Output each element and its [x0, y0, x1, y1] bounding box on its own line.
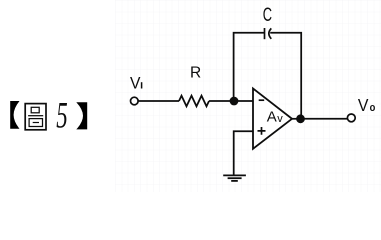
wire Vi to R — [138, 100, 179, 102]
svg-text:A: A — [267, 108, 277, 125]
node A junction dot — [230, 97, 239, 106]
wire node B to terminal Vo — [301, 118, 348, 120]
figure label bracket right — [76, 102, 87, 129]
svg-text:o: o — [370, 102, 376, 114]
node B junction dot — [296, 114, 305, 123]
figure label character 圖 (bottom 回 inner) — [33, 122, 39, 124]
svg-text:R: R — [190, 64, 201, 81]
figure label character 圖 (bottom 回 outer) — [29, 119, 42, 127]
ground — [223, 174, 246, 176]
svg-text:V: V — [130, 74, 141, 92]
wire R to inverting input of U1 — [209, 100, 253, 102]
figure label character 圖 (top 口) — [31, 107, 39, 113]
svg-text:V: V — [358, 95, 369, 115]
wire U1 non-inverting input to ground — [234, 131, 253, 175]
minus sign inverting input — [259, 99, 265, 101]
figure label character 圖 (outer box) — [25, 104, 46, 130]
figure label bracket left — [10, 101, 19, 129]
capacitor C straight plate — [264, 28, 266, 39]
plus sign non-inverting input — [258, 127, 266, 135]
svg-text:v: v — [277, 113, 283, 125]
terminal Vo — [347, 114, 355, 122]
svg-text:C: C — [263, 3, 272, 25]
wire capacitor to node B — [270, 33, 301, 119]
svg-text:5: 5 — [56, 95, 67, 136]
figure label character 圖 (middle bar) — [28, 115, 43, 117]
resistor R — [179, 96, 209, 107]
op-amp U1 — [253, 89, 292, 149]
wire U1 output to node B — [292, 118, 301, 120]
capacitor C curved plate — [269, 28, 271, 38]
wire node A up to capacitor — [234, 33, 264, 101]
terminal Vi — [131, 97, 139, 105]
